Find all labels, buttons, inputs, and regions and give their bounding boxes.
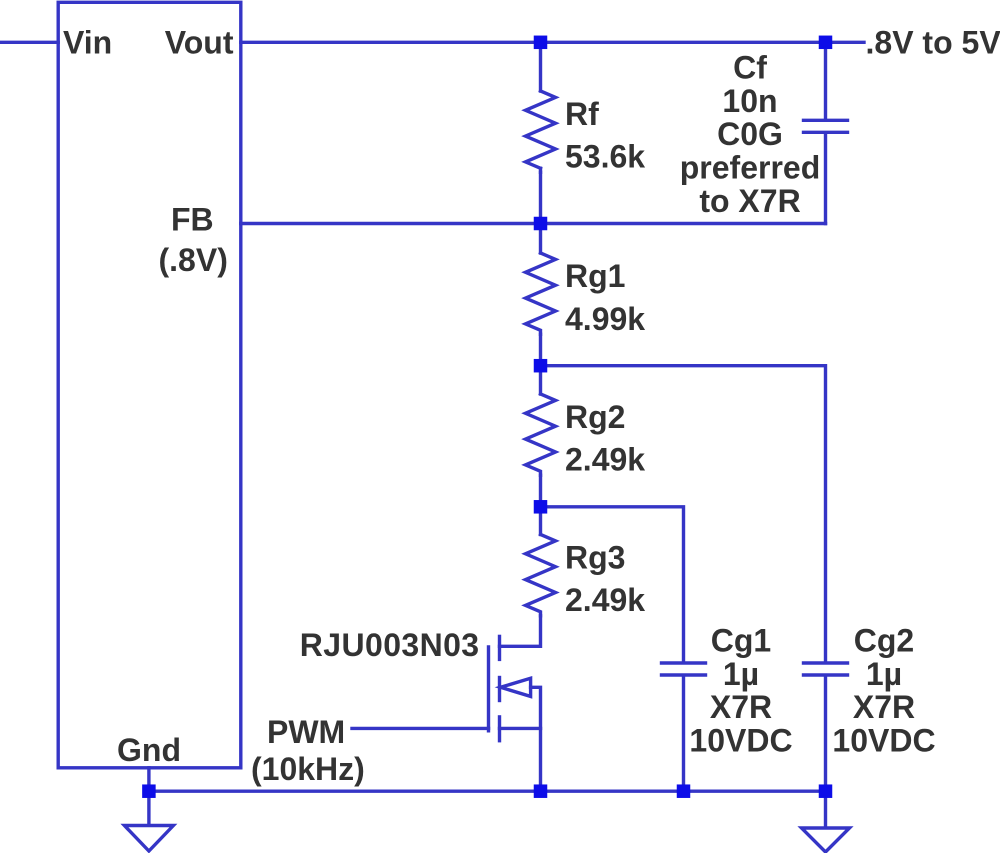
svg-text:Gnd: Gnd	[117, 732, 181, 768]
wire: Rf top stub	[539, 42, 542, 91]
svg-text:X7R: X7R	[710, 689, 772, 725]
svg-text:(10kHz): (10kHz)	[251, 751, 365, 787]
transistor Q1 channel bar middle	[498, 678, 501, 701]
node: Gnd pin junction	[142, 784, 156, 798]
ground symbol left	[147, 791, 150, 824]
wire: Rg1 top stub	[539, 224, 542, 254]
wire: FB rail	[241, 222, 826, 225]
svg-text:RJU003N03: RJU003N03	[300, 627, 480, 663]
capacitor Cf vertical top	[824, 42, 827, 118]
capacitor Cf vertical bottom	[824, 134, 827, 224]
svg-text:Vout: Vout	[165, 25, 234, 61]
svg-text:Cg1: Cg1	[711, 622, 771, 658]
capacitor Cg2 plates	[804, 661, 848, 664]
svg-text:Rg3: Rg3	[565, 539, 625, 575]
svg-text:PWM: PWM	[267, 714, 345, 750]
resistor Rg2	[526, 394, 556, 475]
wire: ground rail	[149, 790, 826, 793]
svg-text:2.49k: 2.49k	[565, 582, 645, 618]
wire: Vin input	[0, 41, 58, 44]
svg-text:1µ: 1µ	[723, 656, 759, 692]
ground symbol right	[824, 791, 827, 827]
resistor Rg3	[526, 535, 556, 616]
transistor Q1 gate bar	[487, 647, 490, 731]
svg-text:53.6k: 53.6k	[565, 139, 645, 175]
wire: Rg2 bottom stub	[539, 475, 542, 507]
wire: PWM to gate	[352, 727, 489, 730]
svg-text:FB: FB	[171, 202, 214, 238]
svg-text:Rg2: Rg2	[565, 399, 625, 435]
svg-text:4.99k: 4.99k	[565, 301, 645, 337]
wire: Rf bottom stub	[539, 172, 542, 223]
svg-text:Cg2: Cg2	[854, 622, 914, 658]
node: source/ground junction	[534, 784, 548, 798]
capacitor Cf plates	[804, 119, 848, 122]
wire: node rail to Cg1	[541, 507, 684, 662]
svg-text:10VDC: 10VDC	[832, 723, 935, 759]
svg-text:10n: 10n	[722, 83, 777, 119]
transistor Q1 channel bar bottom	[498, 717, 501, 741]
svg-text:10VDC: 10VDC	[689, 723, 792, 759]
svg-text:to X7R: to X7R	[699, 183, 800, 219]
transistor Q1 channel bar top	[498, 636, 501, 659]
svg-text:Vin: Vin	[63, 25, 112, 61]
node: FB junction	[534, 217, 548, 231]
svg-text:Rf: Rf	[565, 96, 599, 132]
transistor Q1 source wire	[500, 727, 541, 730]
svg-text:C0G: C0G	[717, 116, 783, 152]
svg-text:(.8V): (.8V)	[159, 242, 228, 278]
wire: Rg3 bottom stub to drain	[500, 616, 541, 647]
capacitor Cg2 bottom wire	[824, 677, 827, 792]
svg-text:.8V to 5V: .8V to 5V	[866, 25, 1000, 61]
svg-text:X7R: X7R	[853, 689, 915, 725]
transistor Q1 body wire	[531, 687, 541, 791]
node: Vout/Cf junction	[819, 36, 833, 50]
capacitor Cg1 plates	[662, 661, 706, 664]
regulator box U1	[58, 2, 241, 768]
wire: Gnd pin	[147, 768, 150, 791]
wire: Vout rail	[241, 41, 864, 44]
transistor Q1 body arrow	[501, 678, 531, 696]
svg-text:2.49k: 2.49k	[565, 442, 645, 478]
wire: Rg2 top stub	[539, 366, 542, 394]
capacitor Cg1 bottom wire	[682, 677, 685, 792]
node: Vout/Rf junction	[534, 36, 548, 50]
svg-text:Rg1: Rg1	[565, 258, 625, 294]
node: Rg1/Rg2/Cg2 junction	[534, 359, 548, 373]
node: Cg1/ground junction	[677, 784, 691, 798]
resistor Rf	[526, 91, 556, 168]
resistor Rg1	[526, 253, 556, 334]
svg-text:Cf: Cf	[733, 49, 767, 85]
svg-text:1µ: 1µ	[866, 656, 902, 692]
wire: Rg1 bottom stub	[539, 334, 542, 365]
svg-text:preferred: preferred	[680, 150, 821, 186]
wire: node rail to Cg2	[541, 366, 826, 662]
node: Rg2/Rg3/Cg1 junction	[534, 500, 548, 514]
node: Cg2/ground junction	[819, 784, 833, 798]
wire: Rg3 top stub	[539, 507, 542, 535]
